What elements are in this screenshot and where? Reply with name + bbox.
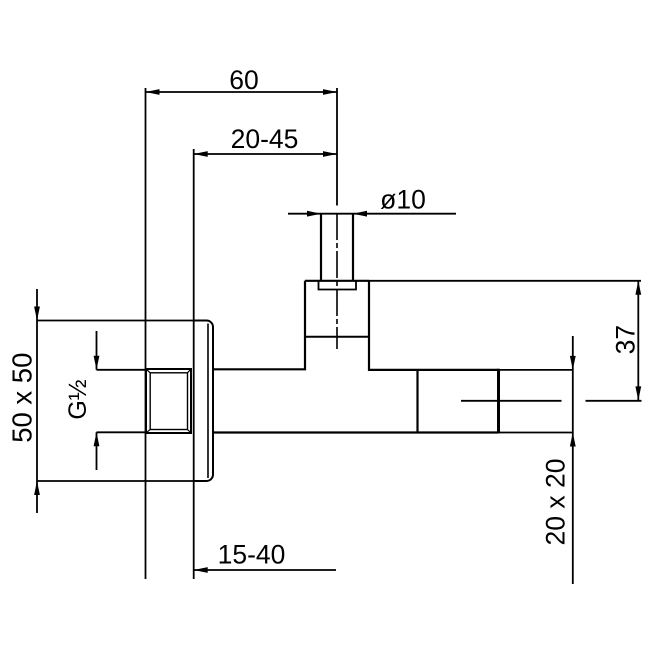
svg-text:G½: G½ xyxy=(64,379,92,419)
svg-text:20-45: 20-45 xyxy=(231,124,299,154)
svg-text:ø10: ø10 xyxy=(380,185,426,215)
svg-text:60: 60 xyxy=(229,65,258,95)
svg-text:20 x 20: 20 x 20 xyxy=(541,459,571,546)
svg-text:37: 37 xyxy=(611,325,641,354)
svg-text:50 x 50: 50 x 50 xyxy=(7,353,38,443)
svg-text:15-40: 15-40 xyxy=(218,540,286,570)
